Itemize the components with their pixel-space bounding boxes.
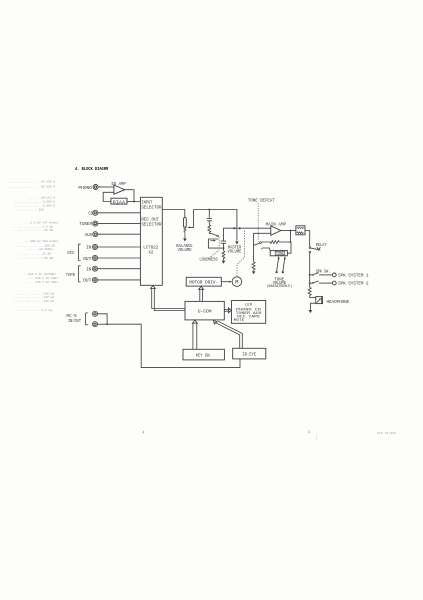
- junction loudness tap: [208, 209, 210, 211]
- svg-text:M: M: [235, 279, 238, 285]
- svg-text:LED: LED: [245, 303, 253, 307]
- ground arrow headphone: [309, 310, 313, 313]
- arrow u-com to LED: [224, 310, 229, 312]
- resistor chain B: [222, 251, 225, 261]
- svg-text:.............100: .............100: [16, 209, 44, 212]
- specification text column (page edge, cropped): [8, 181, 58, 313]
- wire box to rail: [305, 231, 310, 247]
- wire PHONO to EQ amp: [98, 186, 114, 188]
- svg-text:IR.EYE: IR.EYE: [242, 352, 256, 358]
- RC-5 bracket: [86, 313, 88, 325]
- svg-text:LOUDNESS: LOUDNESS: [199, 256, 217, 262]
- wire RC-5 to IR.EYE: [107, 324, 240, 367]
- resistor headphone: [308, 287, 311, 297]
- wire tap down: [208, 210, 210, 218]
- dashed mech link motor: [237, 231, 245, 276]
- wire EQ amp feedback: [103, 192, 114, 201]
- svg-text:TAPE: TAPE: [66, 272, 75, 278]
- svg-text:KEY SW.: KEY SW.: [196, 352, 212, 358]
- input wire y=279.9: [98, 279, 141, 281]
- arrow to motor: [221, 281, 229, 283]
- TAPE bracket: [79, 266, 81, 282]
- svg-text:.....240 V AC 50Hz: .....240 V AC 50Hz: [27, 281, 58, 284]
- AUX jack: [93, 232, 98, 237]
- speaker switch 1: [309, 274, 311, 276]
- svg-text:.................420 mm: .................420 mm: [14, 292, 54, 295]
- RIAA box: [111, 198, 127, 204]
- svg-text:U-COM: U-COM: [198, 308, 212, 314]
- input wire y=247.0: [98, 246, 141, 248]
- master wiper arrows: [234, 227, 237, 230]
- wire RIAA out: [127, 201, 134, 203]
- svg-text:SPK SYSTEM 2: SPK SYSTEM 2: [338, 281, 368, 287]
- coil: [297, 227, 304, 230]
- ground arrow master: [235, 241, 239, 244]
- LED box: [232, 301, 266, 324]
- TUNER jack: [93, 221, 98, 226]
- svg-text:...............> 90 dB: ...............> 90 dB: [15, 256, 53, 260]
- bus arrow key sw to u-com: [193, 323, 197, 350]
- headphone jack: [316, 297, 323, 304]
- DCC IN jack: [92, 244, 97, 249]
- svg-text:AUX: AUX: [85, 232, 93, 238]
- svg-text:...................80 100 W: ...................80 100 W: [8, 181, 55, 184]
- svg-text:PHONO: PHONO: [78, 185, 92, 191]
- svg-text:.................0.008 %: .................0.008 %: [13, 205, 55, 208]
- DCC OUT jack: [92, 255, 97, 260]
- svg-text:.................110 mm: .................110 mm: [14, 296, 54, 299]
- svg-text:MUTE: MUTE: [234, 319, 245, 323]
- svg-text:........8Ω/1kC W: ........8Ω/1kC W: [27, 196, 55, 200]
- bus arrow u-com to selector: [152, 288, 185, 311]
- loudness switch arm: [209, 233, 216, 235]
- svg-text:IN/OUT: IN/OUT: [68, 318, 81, 324]
- svg-text:RIAA: RIAA: [113, 200, 126, 206]
- svg-text:.................300 mm: .................300 mm: [14, 300, 54, 303]
- wire master to main amp: [240, 227, 271, 229]
- wire feedback down: [279, 231, 290, 243]
- TAPE OUT jack: [92, 277, 97, 282]
- IR.EYE box: [233, 348, 266, 359]
- svg-text:4: 4: [142, 431, 144, 435]
- capacitor chain B: [221, 241, 226, 243]
- loudness switch contact: [217, 235, 219, 237]
- svg-text:TONE DEFEAT: TONE DEFEAT: [248, 198, 275, 204]
- PHONO jack: [93, 184, 98, 189]
- wire inv input: [254, 233, 271, 261]
- resistor gain: [252, 262, 255, 271]
- svg-text:.................±3 dB: .................±3 dB: [13, 252, 51, 256]
- svg-text:..................2.5 dB: ..................2.5 dB: [11, 224, 53, 228]
- rail: [309, 253, 311, 288]
- op-amp main amp: [271, 226, 281, 235]
- wire balance wiper to bus: [190, 210, 194, 228]
- tone pot bass: [277, 259, 279, 271]
- balance pot zigzag lead: [184, 227, 186, 238]
- balance volume pot: [184, 218, 187, 227]
- headphone sleeve to ground: [310, 303, 315, 310]
- svg-text:...................90 100 W: ...................90 100 W: [8, 185, 55, 188]
- svg-text:(BASS&TREBLE): (BASS&TREBLE): [267, 284, 293, 289]
- TAPE IN jack: [92, 266, 97, 271]
- wire RC-5 jacks join: [98, 314, 108, 324]
- MOTOR DRIV box: [186, 277, 221, 286]
- tone defeat contact: [260, 242, 262, 244]
- tone pot treble: [283, 259, 285, 271]
- input wire y=212.8: [98, 212, 141, 214]
- wire to headphone jack: [310, 297, 316, 299]
- dashed tone defeat: [257, 203, 259, 241]
- svg-text:.....240 V AC 50Hz: .....240 V AC 50Hz: [27, 277, 58, 280]
- svg-text:MOTOR DRIV-: MOTOR DRIV-: [189, 279, 218, 285]
- wire master wiper to chain B: [224, 228, 237, 241]
- input wire y=223.6: [98, 223, 141, 225]
- ground arrow balance: [183, 238, 187, 241]
- RC-5 IN jack jack: [92, 311, 97, 316]
- svg-text:REC.OUT: REC.OUT: [141, 216, 159, 222]
- wire tone box right: [287, 242, 291, 253]
- svg-text:.................6.3 kg: .................6.3 kg: [12, 308, 52, 312]
- svg-text:.................100 dB: .................100 dB: [15, 243, 55, 247]
- input wire y=258.0: [98, 257, 141, 259]
- svg-text:TUNER: TUNER: [79, 221, 92, 227]
- wire EQ amp output: [125, 190, 141, 202]
- dashed mech link loudness: [208, 237, 220, 259]
- svg-text:....2.5 mV 147 Kohms: ....2.5 mV 147 Kohms: [23, 220, 58, 224]
- svg-text:DCC: DCC: [67, 250, 74, 256]
- input wire y=234.2: [98, 233, 141, 235]
- junction feedback: [290, 230, 292, 232]
- svg-text:4. BLOCK DIAGRM: 4. BLOCK DIAGRM: [75, 167, 109, 172]
- svg-text:SPK SYSTEM 1: SPK SYSTEM 1: [338, 272, 368, 278]
- input wire y=268.7: [98, 268, 141, 270]
- junction chain B: [223, 247, 225, 249]
- relay actuator arrow: [317, 247, 320, 250]
- capacitor chain A: [207, 218, 212, 220]
- bus arrow u-com to motor driv: [200, 289, 203, 302]
- tone branch: [262, 248, 270, 251]
- svg-text:OUT: OUT: [83, 278, 91, 284]
- svg-text:VOLUME: VOLUME: [227, 248, 241, 254]
- resistor chain A: [208, 225, 211, 234]
- svg-text:X2: X2: [148, 249, 153, 255]
- loudness box arrow: [210, 240, 213, 242]
- U-COM box: [185, 301, 224, 320]
- TONE box outer: [270, 251, 287, 256]
- svg-text:....150 mV 100 Kohms: ....150 mV 100 Kohms: [23, 239, 58, 243]
- junction phono: [133, 201, 135, 203]
- motor M: [232, 277, 242, 287]
- bus arrow ir.eye to u-com: [215, 321, 243, 348]
- wire bus to master pot: [194, 210, 237, 241]
- tone defeat switch arm: [254, 243, 260, 245]
- balance wiper arrow: [187, 226, 190, 228]
- svg-text:CD: CD: [88, 210, 93, 216]
- SPK SYSTEM 2 terminal: [332, 281, 336, 285]
- speaker switch 2: [309, 282, 311, 284]
- wire loudness box to node: [218, 247, 223, 249]
- CD jack: [93, 210, 98, 215]
- svg-text:.................0.008 %: .................0.008 %: [13, 201, 55, 204]
- loudness actuator box: [208, 239, 218, 248]
- DCC bracket: [79, 244, 81, 260]
- svg-text:IN: IN: [86, 266, 91, 272]
- junction fb: [290, 241, 292, 243]
- svg-text:.......10-70kHz: .......10-70kHz: [27, 247, 53, 251]
- svg-text:SELECTOR: SELECTOR: [141, 222, 161, 228]
- RC-5 OUT jack jack: [92, 322, 97, 327]
- svg-text:VOLUME: VOLUME: [178, 247, 192, 253]
- KEY SW box: [183, 349, 224, 360]
- resistor: [297, 232, 304, 234]
- input selector IC LC7822: [140, 197, 162, 285]
- svg-text:...220 V AC 50/60Hz: ...220 V AC 50/60Hz: [23, 272, 56, 276]
- svg-text:..................50 dB: ..................50 dB: [13, 228, 53, 232]
- svg-text:HEADPHONE: HEADPHONE: [327, 299, 350, 305]
- svg-text:MAIN AMP: MAIN AMP: [266, 221, 287, 227]
- svg-text:OUT: OUT: [83, 256, 91, 262]
- TONE box inner: [275, 251, 285, 255]
- wire selector out to balance pot: [162, 210, 185, 218]
- svg-text:SPK SW.: SPK SW.: [316, 269, 331, 275]
- svg-text:3: 3: [308, 431, 310, 435]
- op-amp EQ amp: [114, 185, 125, 194]
- ground arrow gain R: [252, 271, 256, 274]
- wire main amp out: [281, 230, 296, 232]
- svg-text:TONE: TONE: [276, 253, 285, 257]
- ground arrow chain B: [222, 261, 226, 264]
- svg-text:PCS 70/166: PCS 70/166: [377, 431, 396, 435]
- svg-text:IN: IN: [86, 245, 91, 251]
- svg-text:SELECTOR: SELECTOR: [141, 205, 161, 211]
- output LR network box: [296, 226, 305, 235]
- feedback resistor: [262, 241, 280, 244]
- SPK SYSTEM 1 terminal: [332, 273, 336, 277]
- relay contacts: [309, 247, 311, 249]
